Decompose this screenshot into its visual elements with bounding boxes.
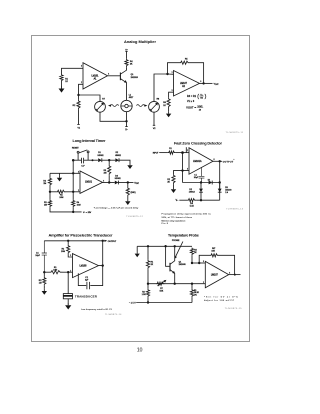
node column crossing	[72, 191, 74, 193]
svg-text:(50K): (50K)	[131, 192, 136, 194]
svg-text:LM107: LM107	[211, 275, 219, 277]
wire top rail	[44, 240, 102, 242]
svg-text:6: 6	[103, 180, 104, 182]
node R5 top	[108, 159, 110, 161]
svg-text:2M: 2M	[104, 172, 107, 174]
svg-text:10pF: 10pF	[194, 177, 199, 179]
svg-text:TL/H/6875–15: TL/H/6875–15	[225, 308, 243, 310]
svg-text:R1: R1	[169, 148, 171, 150]
wire top row left	[73, 159, 81, 161]
node output junction	[234, 274, 236, 276]
wire photocell to bus	[100, 112, 128, 121]
svg-text:(: (	[197, 94, 199, 100]
wire inverting input row	[174, 171, 190, 175]
resistor R2	[147, 284, 149, 289]
wire node to photocell R7	[79, 95, 101, 101]
wire A1 inverting input	[79, 84, 84, 95]
wire lamp bottom	[126, 112, 128, 122]
diode D1 feedback	[209, 181, 213, 185]
capacitor C1	[42, 241, 47, 272]
resistor R1 10M horizontal	[50, 191, 56, 193]
resistor R6 50K	[127, 183, 129, 188]
svg-text:H5082: H5082	[98, 155, 105, 157]
wire R2 to rail	[147, 298, 149, 303]
wire R1 to inverting input	[66, 191, 80, 193]
svg-text:H5082: H5082	[115, 155, 122, 157]
node input junction	[181, 151, 184, 154]
wire switch legs	[78, 153, 88, 160]
node R2 bottom	[49, 187, 51, 192]
node rail junction	[72, 211, 74, 213]
V+ terminal	[125, 51, 127, 59]
optical coupling arrow left	[110, 105, 118, 107]
svg-text:*Set for 0V at 0°C: *Set for 0V at 0°C	[204, 295, 238, 298]
svg-text:10M: 10M	[59, 197, 63, 199]
svg-text:5.1K: 5.1K	[190, 206, 195, 208]
node C1 bottom junction	[200, 181, 202, 183]
svg-text:TL/H/6875–11: TL/H/6875–11	[226, 132, 244, 134]
resistor R3 1M	[43, 272, 45, 277]
potentiometer R7 wiper arrow	[158, 281, 165, 286]
terminal V2	[153, 112, 155, 125]
op-amp A1	[83, 63, 108, 89]
wire R5 to rail	[191, 298, 193, 303]
bottom rail	[50, 208, 82, 212]
svg-text:1M: 1M	[44, 205, 47, 207]
transistor Q1	[169, 263, 171, 272]
svg-text:10: 10	[137, 347, 143, 353]
svg-text:Pin 8: Pin 8	[161, 223, 168, 225]
op-amp LM161	[189, 148, 213, 175]
wire feedback row	[183, 182, 220, 184]
op-amp LM101	[80, 171, 103, 193]
noninverting row	[192, 262, 205, 264]
svg-text:TRANSDUCER: TRANSDUCER	[75, 294, 98, 298]
wire left vertical	[182, 153, 184, 183]
resistor R1	[147, 246, 149, 259]
output arrow	[103, 240, 106, 242]
resistor R4 10M	[72, 200, 75, 208]
ground arrow left end	[136, 246, 138, 251]
node R1 top	[147, 245, 149, 247]
svg-text:Long Interval Timer: Long Interval Timer	[73, 138, 106, 143]
wire A2 noninverting input	[169, 92, 174, 98]
svg-text:LM101: LM101	[92, 75, 100, 77]
svg-text:TL/H/6875–14: TL/H/6875–14	[105, 314, 122, 316]
node A2 inverting junction	[166, 73, 168, 75]
svg-text:LM101: LM101	[85, 182, 93, 184]
ground below R2	[173, 185, 175, 187]
node feedback right junction	[219, 181, 221, 183]
resistor R5	[191, 284, 193, 289]
svg-text:H5082: H5082	[115, 178, 122, 180]
resistor R1 1K	[60, 74, 63, 82]
svg-text:1.5K: 1.5K	[142, 294, 147, 296]
resistor R4	[190, 248, 193, 256]
border frame	[32, 36, 250, 342]
svg-text:10M: 10M	[53, 270, 57, 272]
svg-text:Propagation delay approximatel: Propagation delay approximately 200 ns	[161, 213, 211, 216]
svg-text:3: 3	[70, 255, 71, 257]
terminal V-	[125, 121, 127, 126]
ground below R6	[168, 109, 170, 112]
feedback capacitor C2	[78, 266, 102, 290]
svg-text:Amplifier for Piezoelectric Tr: Amplifier for Piezoelectric Transducer	[49, 232, 113, 237]
node row left	[147, 283, 149, 285]
svg-text:2M: 2M	[43, 183, 46, 185]
wire output	[200, 82, 213, 84]
ground below R6	[127, 197, 129, 199]
wire feedback to output	[219, 255, 235, 274]
svg-text:PROBE: PROBE	[172, 240, 180, 242]
wire noninverting input row	[50, 172, 80, 174]
wire output feedback vertical	[219, 161, 221, 200]
resistor R6 feedback	[210, 254, 219, 257]
node output top	[102, 240, 104, 242]
lamp L1	[121, 100, 132, 111]
svg-text:8: 8	[214, 159, 215, 161]
svg-text:1%: 1%	[194, 295, 197, 297]
resistor R2 2M	[49, 173, 51, 177]
svg-text:10M: 10M	[77, 205, 81, 207]
ground below transducer	[67, 299, 69, 303]
svg-text:Adjust for 100 mV/°C: Adjust for 100 mV/°C	[204, 299, 234, 302]
wire rail to output column	[196, 199, 220, 201]
svg-text:6: 6	[108, 74, 109, 76]
svg-text:−15V: −15V	[129, 302, 136, 304]
wire output	[229, 274, 241, 276]
svg-text:INPUT: INPUT	[153, 152, 159, 154]
photocell R8	[149, 101, 160, 112]
svg-text:2N2605: 2N2605	[179, 264, 187, 266]
resistor R3 1M	[49, 192, 51, 200]
optical coupling arrow right	[136, 105, 144, 107]
svg-text:LM108: LM108	[80, 266, 88, 268]
transducer element	[67, 272, 69, 293]
svg-text:Temperature Probe: Temperature Probe	[168, 232, 200, 237]
diode D3 output	[103, 182, 115, 184]
wire junction to A2 input	[168, 73, 174, 75]
svg-text:OUTPUT: OUTPUT	[223, 161, 234, 163]
bottom rail	[136, 302, 192, 304]
wire D2 to ground	[119, 160, 130, 163]
terminal V1	[77, 110, 80, 125]
svg-text:1N914: 1N914	[189, 191, 196, 193]
switch S1	[77, 151, 79, 153]
svg-text:10µF: 10µF	[35, 255, 40, 257]
node R2 top	[67, 240, 69, 242]
resistor R6	[167, 98, 170, 109]
svg-text:10M: 10M	[61, 251, 65, 253]
feedback riser	[199, 255, 210, 263]
resistor R5	[108, 160, 110, 165]
svg-text:Low frequency cutoff = R1 C1: Low frequency cutoff = R1 C1	[81, 308, 113, 311]
node rail junction	[200, 199, 202, 201]
svg-text:LM107: LM107	[180, 83, 188, 85]
wire stub up	[185, 147, 187, 152]
transistor Q1 2N2920	[119, 73, 121, 81]
wire output to feedback	[99, 241, 103, 266]
svg-text:V− = 15V: V− = 15V	[83, 212, 92, 214]
diode D2	[115, 158, 119, 162]
node collector top	[174, 245, 176, 247]
node output junction	[202, 82, 204, 84]
resistor R5 feedback	[180, 61, 191, 64]
svg-text:TL/H/6875–12: TL/H/6875–12	[126, 216, 143, 218]
resistor R4 2K	[125, 59, 128, 67]
svg-text:RESET: RESET	[72, 148, 80, 150]
wire R1 to row	[147, 270, 149, 284]
wire base to rail	[166, 246, 170, 266]
wire top row right	[84, 159, 98, 161]
svg-text:Fast Zero Crossing Detector: Fast Zero Crossing Detector	[174, 140, 222, 145]
wire output	[213, 160, 222, 162]
ground below R1	[61, 82, 63, 86]
node switch column top	[72, 172, 74, 174]
wire feedback riser	[168, 63, 180, 74]
node inverting junction	[181, 169, 183, 171]
resistor R4 5.1K	[179, 199, 187, 201]
wire R2 to noninverting input	[68, 255, 72, 257]
resistor R2	[78, 95, 80, 100]
svg-text:VOUT =: VOUT =	[186, 107, 196, 109]
diode D1	[98, 158, 102, 162]
op-amp LM108	[73, 254, 99, 278]
node emitter row	[174, 283, 176, 285]
svg-text:V1 ≥ 0: V1 ≥ 0	[187, 100, 195, 103]
node output junction	[118, 182, 133, 184]
svg-text:Minimize stray capacitance: Minimize stray capacitance	[161, 219, 186, 222]
svg-text:C1*: C1*	[81, 166, 85, 168]
ground below R3	[43, 286, 45, 289]
node junction	[77, 94, 79, 96]
ground tap	[59, 173, 61, 175]
potentiometer R7 body	[156, 282, 164, 285]
wire R5 to output	[108, 176, 110, 183]
node output junction	[219, 160, 221, 162]
wire photocell R8 top to A2 input	[154, 74, 168, 101]
capacitor C1	[82, 158, 84, 164]
svg-text:1M: 1M	[39, 283, 42, 285]
ground right of D2	[127, 163, 132, 169]
wire D1 to node	[102, 159, 116, 161]
op-amp A2	[174, 71, 200, 97]
node R5 row	[191, 283, 193, 285]
capacitor C1	[199, 168, 205, 183]
wire A1 noninverting input	[62, 68, 84, 74]
svg-text:R4 = R1: R4 = R1	[187, 96, 197, 98]
svg-text:LM161A: LM161A	[193, 160, 202, 163]
wire R4 to noninverting row	[191, 256, 193, 263]
diode D3 LM103	[219, 183, 221, 189]
svg-text:Analog Multiplier: Analog Multiplier	[124, 39, 156, 44]
svg-text:2N2920: 2N2920	[131, 77, 139, 79]
node V- junction	[125, 120, 127, 122]
op-amp LM107	[205, 261, 228, 287]
wire input to op-amp	[176, 152, 189, 154]
svg-text:TL/H/6875–13: TL/H/6875–13	[226, 208, 243, 210]
wire switch column	[72, 160, 74, 199]
svg-text:): )	[205, 94, 207, 100]
resistor R2	[172, 174, 175, 184]
resistor R1 10M	[44, 271, 49, 273]
node C1 bottom junction	[43, 271, 45, 273]
wire feedback to output	[190, 63, 204, 84]
wire R1 to inverting input	[63, 271, 73, 273]
wire top rail	[137, 245, 192, 247]
svg-text:*Low leakage — 0.017 µF per se: *Low leakage — 0.017 µF per second delay	[94, 206, 139, 209]
photocell R7	[95, 101, 106, 112]
node transducer junction	[67, 271, 69, 273]
svg-text:10%, at TTL fanout of three: 10%, at TTL fanout of three	[161, 216, 192, 219]
resistor R1 input	[159, 152, 168, 154]
diode D2 1N914	[200, 183, 202, 189]
svg-text:D1: D1	[208, 180, 210, 182]
resistor R2 10M	[67, 241, 69, 245]
svg-text:OUTPUT: OUTPUT	[108, 241, 117, 243]
inverting row	[148, 283, 205, 285]
